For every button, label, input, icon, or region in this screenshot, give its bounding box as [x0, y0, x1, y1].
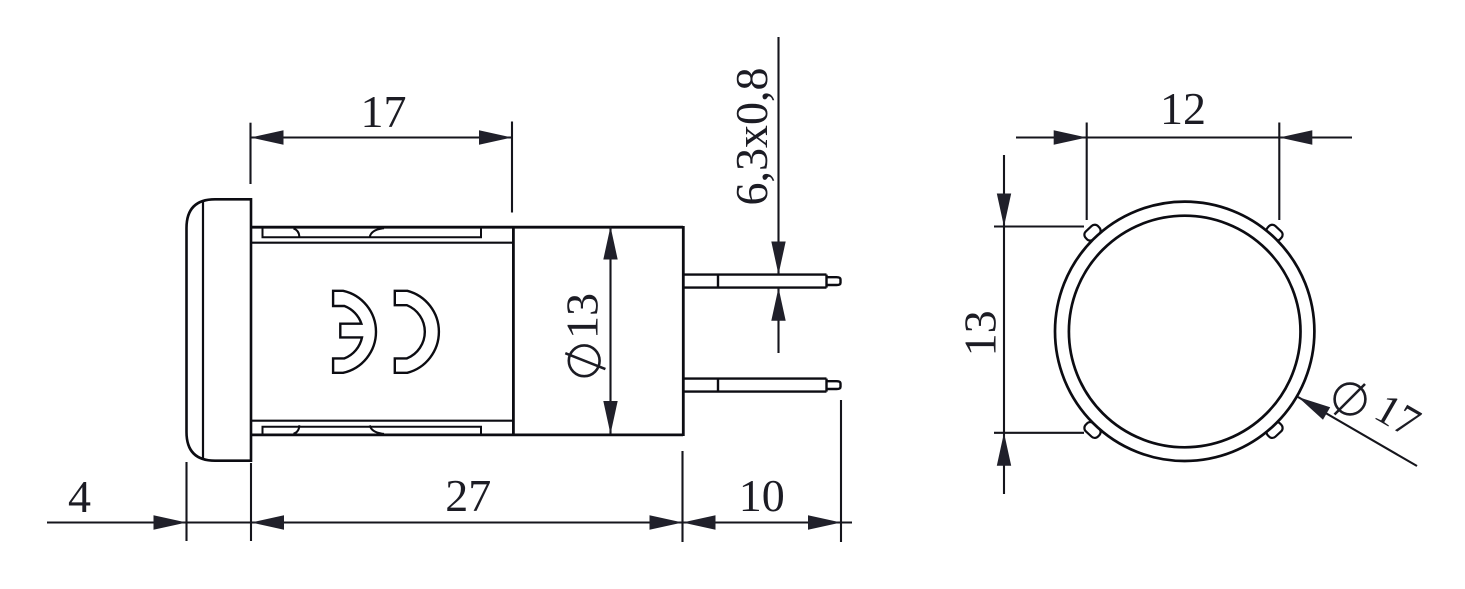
svg-text:6,3x0,8: 6,3x0,8: [726, 68, 777, 206]
svg-text:12: 12: [1160, 83, 1206, 134]
svg-text:13: 13: [557, 293, 608, 339]
svg-text:27: 27: [445, 470, 491, 521]
svg-text:13: 13: [955, 310, 1006, 356]
svg-text:17: 17: [361, 86, 407, 137]
svg-text:4: 4: [68, 471, 91, 522]
svg-text:10: 10: [739, 470, 785, 521]
svg-text:17: 17: [1367, 385, 1428, 447]
